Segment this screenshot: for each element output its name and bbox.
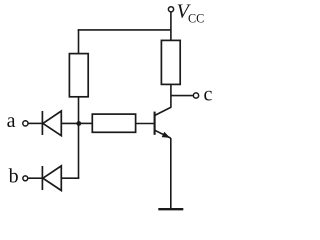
svg-text:a: a xyxy=(7,110,16,132)
ground xyxy=(158,208,183,210)
resistor R1 (left) xyxy=(69,54,88,97)
wire left branch vertical top xyxy=(78,29,80,53)
wire diode a to node xyxy=(61,122,78,124)
transistor Q1 collector diagonal xyxy=(155,107,172,115)
svg-text:CC: CC xyxy=(188,12,204,26)
wire collector vertical xyxy=(170,84,172,107)
terminal c circle xyxy=(193,93,198,98)
wire emitter vertical xyxy=(170,138,172,209)
wire top horizontal xyxy=(78,29,171,31)
wire a to diode xyxy=(28,122,42,124)
svg-text:c: c xyxy=(204,83,213,105)
transistor Q1 emitter diagonal xyxy=(155,130,171,138)
resistor R2 (middle horizontal) xyxy=(92,114,135,132)
wire R2 to base xyxy=(136,123,155,125)
svg-text:b: b xyxy=(9,166,19,188)
wire b to diode xyxy=(28,177,42,179)
diode D2 (input b) xyxy=(42,166,61,191)
node junction dot xyxy=(76,121,81,126)
transistor Q1 base bar xyxy=(154,112,156,135)
diode D1 (input a) xyxy=(42,111,61,136)
wire VCC vertical xyxy=(170,12,172,41)
wire diode b to vertical xyxy=(61,177,79,179)
terminal VCC circle xyxy=(168,7,173,12)
transistor Q1 emitter arrow xyxy=(162,132,171,138)
wire left branch vertical bottom xyxy=(78,97,80,178)
label VCC xyxy=(177,1,205,26)
terminal b circle xyxy=(23,176,28,181)
wire node to R2 xyxy=(79,122,93,124)
resistor R3 (right) xyxy=(161,40,180,84)
wire c horizontal xyxy=(171,95,193,97)
terminal a circle xyxy=(23,121,28,126)
